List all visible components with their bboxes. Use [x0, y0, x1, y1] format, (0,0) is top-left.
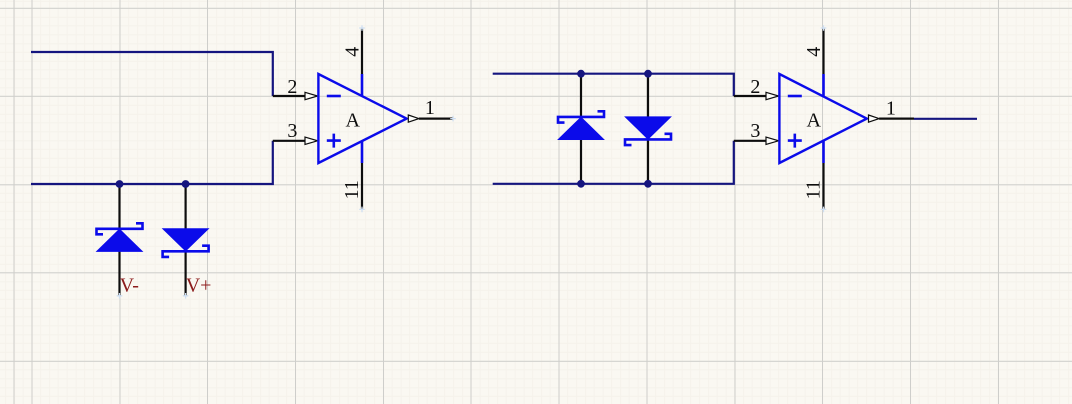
power stub bottom: [822, 141, 825, 163]
pin 4 wire: [361, 29, 363, 74]
svg-text:2: 2: [750, 76, 760, 98]
pin 4 end marker: [821, 25, 827, 31]
pin 1 end marker: [450, 116, 456, 122]
diode D4 (zener, cathode down): [625, 117, 671, 145]
wire W1 (left top input wire): [31, 52, 273, 96]
svg-text:V-: V-: [120, 275, 139, 297]
svg-text:2: 2: [287, 76, 297, 98]
pin 4 end marker: [359, 25, 365, 31]
pin 3 arrow: [305, 137, 318, 144]
pin 3 arrow: [766, 137, 779, 144]
diode D4 pin wires (vertical): [647, 74, 649, 184]
diode D2 pin wires (vertical): [185, 184, 187, 296]
triangle body: [318, 74, 406, 163]
pin-end marker: [183, 293, 189, 299]
minus symbol: [327, 95, 341, 98]
svg-text:4: 4: [341, 47, 363, 57]
diode D3 (zener, cathode up): [558, 111, 604, 139]
pin 2 wire: [273, 95, 306, 97]
pin 1 wire: [419, 117, 453, 119]
junction J5: [577, 180, 585, 188]
svg-text:11: 11: [802, 180, 824, 199]
diode D3 pin wires (vertical): [580, 74, 582, 184]
diode D2 (zener, cathode down): [163, 229, 209, 257]
svg-text:V+: V+: [186, 275, 212, 297]
junction J4: [644, 70, 652, 78]
junction J2: [182, 180, 190, 188]
pin 11 end marker: [821, 207, 827, 213]
power stub bottom: [361, 141, 364, 163]
triangle body: [779, 74, 866, 163]
power stub top: [361, 74, 364, 96]
op-amp A (left): [273, 25, 456, 212]
pin 4 wire: [822, 29, 824, 74]
pin 3 wire: [273, 140, 306, 142]
plus symbol: [327, 134, 341, 148]
pin 2 arrow: [766, 92, 779, 99]
junction J3: [577, 70, 585, 78]
pin 11 wire: [822, 163, 824, 209]
svg-text:A: A: [346, 110, 361, 132]
junction J1: [116, 180, 124, 188]
pin 11 end marker: [359, 207, 365, 213]
svg-text:A: A: [807, 110, 822, 132]
plus symbol: [788, 134, 802, 148]
junction J6: [644, 180, 652, 188]
power stub top: [822, 74, 825, 97]
svg-text:1: 1: [886, 97, 896, 119]
wire W5 (right output wire): [914, 118, 977, 120]
pin 1 wire: [879, 117, 914, 119]
svg-text:4: 4: [803, 47, 825, 57]
wire W2 (left bottom input wire): [31, 141, 273, 184]
diode D1 pin wires (vertical): [118, 184, 120, 296]
svg-text:3: 3: [287, 120, 297, 142]
pin 3 wire: [734, 140, 767, 142]
svg-text:11: 11: [341, 180, 363, 199]
pin 2 wire: [734, 95, 767, 97]
diode D1 (zener, cathode up): [97, 223, 143, 251]
pin 1 arrow: [869, 115, 880, 122]
op-amp A (right): [734, 25, 914, 212]
wire W4 (right bottom input wire): [493, 141, 734, 184]
wire W3 (right top input wire): [493, 74, 734, 96]
svg-text:3: 3: [750, 120, 760, 142]
pin 2 arrow: [305, 92, 318, 99]
pin 11 wire: [361, 163, 363, 209]
minus symbol: [788, 95, 802, 98]
svg-text:1: 1: [425, 97, 435, 119]
pin-end marker: [117, 293, 123, 299]
pin 1 arrow: [408, 115, 419, 122]
